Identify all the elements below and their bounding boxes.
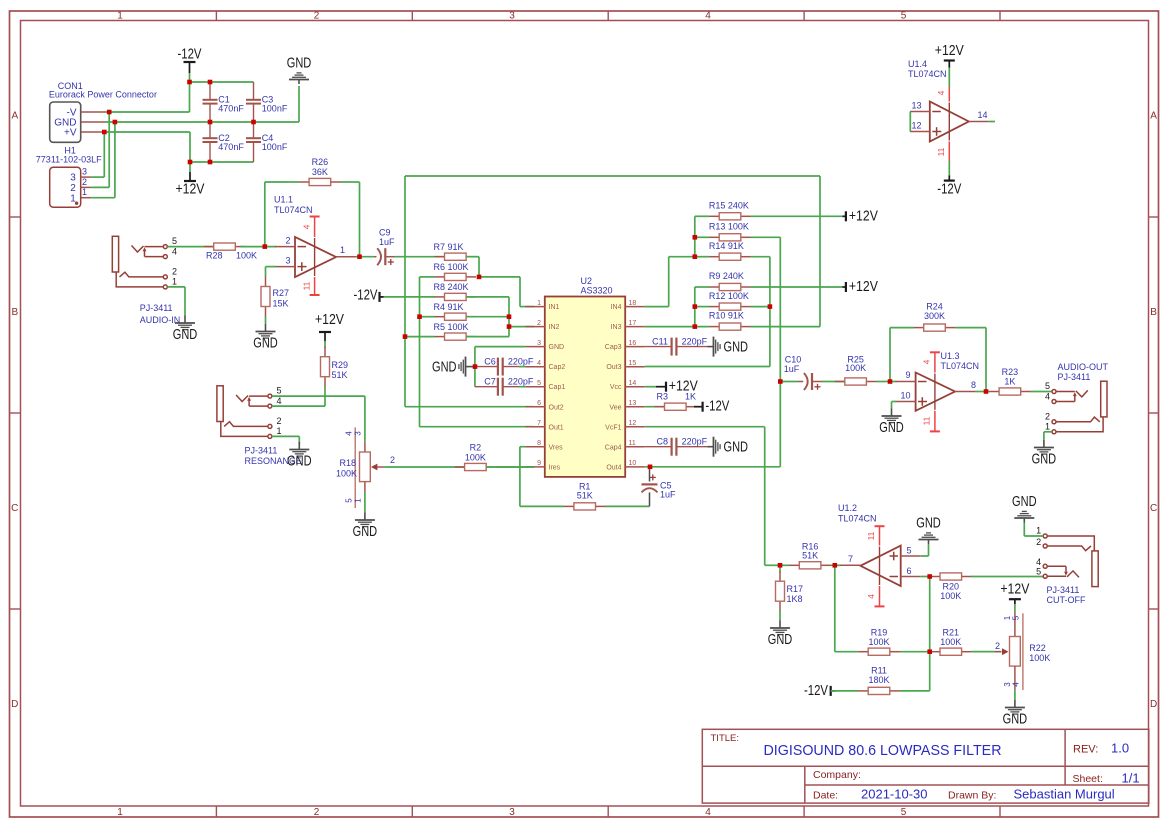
svg-text:4: 4 (866, 594, 876, 599)
junction at (694.8,326.6) (693, 324, 698, 329)
wire Out3 pin15 (645, 366, 770, 368)
wire R2 to Ires pin9 (486, 466, 534, 468)
op-amp U1.1 TL074CN (274, 195, 356, 278)
svg-text:A: A (11, 111, 18, 122)
junction at (929.7,576.5) (927, 574, 932, 579)
svg-text:-12V: -12V (354, 287, 378, 303)
capacitor C3 (246, 82, 288, 122)
svg-text:2: 2 (82, 177, 87, 187)
svg-text:100K: 100K (940, 637, 961, 647)
svg-text:5: 5 (901, 11, 907, 22)
wire R18 wiper to R2 (384, 466, 465, 468)
junction at (210,122) (208, 120, 213, 125)
svg-text:A: A (1150, 111, 1157, 122)
ground GND (top, bypass caps) (287, 56, 312, 85)
IC U2 AS3320 (525, 276, 644, 477)
wire R21 to R22 wiper (971, 651, 995, 653)
svg-text:4: 4 (705, 11, 711, 22)
junction at (780.3,381.5) (778, 379, 783, 384)
jack AUDIO-IN PJ-3411 (112, 236, 180, 325)
wire audio-in tip to R28 (168, 246, 214, 248)
svg-text:R19: R19 (871, 628, 888, 638)
svg-text:300K: 300K (924, 311, 945, 321)
wire audio-out sleeve to gnd (1044, 432, 1052, 440)
svg-text:100K: 100K (236, 251, 257, 261)
svg-text:3: 3 (509, 11, 515, 22)
junction at (834.8,565.3) (833, 563, 838, 568)
wire C7 to IC pin5 (519, 386, 525, 388)
svg-text:3: 3 (353, 431, 362, 436)
resistor R8 (381, 282, 476, 301)
wire feedback vertical x405 (Out2 net) (405, 176, 820, 407)
op-amp U1.4 TL074CN (unused) (908, 59, 989, 142)
svg-text:AUDIO-IN: AUDIO-IN (140, 315, 181, 325)
svg-text:15: 15 (629, 360, 637, 367)
svg-text:2: 2 (537, 320, 541, 327)
resistor R29 (321, 347, 349, 388)
potentiometer R18 100K (336, 427, 395, 508)
svg-text:REV:: REV: (1073, 744, 1098, 756)
U1.4 power pin 4 to +12V (935, 43, 964, 102)
resistor R4 (421, 302, 476, 320)
svg-text:C: C (1150, 503, 1157, 514)
svg-text:R6 100K: R6 100K (434, 262, 469, 272)
svg-text:1: 1 (353, 498, 362, 503)
svg-text:36K: 36K (312, 167, 328, 177)
svg-text:Cap2: Cap2 (549, 364, 566, 371)
svg-text:-12V: -12V (804, 683, 828, 699)
wire R11 to R21 node (900, 652, 930, 691)
svg-text:100K: 100K (336, 469, 357, 479)
svg-text:D: D (11, 699, 18, 710)
svg-text:13: 13 (629, 400, 637, 407)
svg-text:TL074CN: TL074CN (908, 69, 947, 79)
junction at (694.8,237.3) (693, 235, 698, 240)
capacitor C4 (246, 122, 288, 162)
svg-text:U1.2: U1.2 (838, 503, 857, 513)
svg-text:7: 7 (537, 420, 541, 427)
power -12V (R8 input) (354, 287, 384, 303)
junction at (359.5,256.7) (357, 254, 362, 259)
svg-text:Sebastian Murgul: Sebastian Murgul (1014, 787, 1115, 802)
wire H1 pin3 to +V (91, 132, 104, 177)
svg-text:14: 14 (978, 110, 988, 120)
potentiometer R22 100K (995, 612, 1050, 690)
resistor R27 (261, 277, 289, 318)
svg-text:1/1: 1/1 (1122, 771, 1140, 786)
svg-text:IN1: IN1 (549, 304, 560, 311)
resistor R25 (835, 355, 890, 386)
wire op-amp pin3 to R27 (266, 267, 277, 277)
svg-text:R20: R20 (943, 582, 960, 592)
wire R22 bottom to gnd (1014, 690, 1016, 700)
wire R25 to pin9 (890, 381, 897, 383)
svg-text:R18: R18 (339, 458, 356, 468)
svg-text:C8: C8 (656, 437, 668, 447)
wire R8 to R4 right node (466, 297, 509, 327)
svg-text:C9: C9 (379, 228, 391, 238)
jack CUT-OFF PJ-3411 (1036, 526, 1098, 606)
svg-text:2: 2 (1045, 412, 1050, 422)
wire pin7 to R19 (835, 565, 858, 651)
junction at (769.9,306.6) (768, 304, 773, 309)
svg-text:11: 11 (629, 440, 636, 447)
resistor R1 (564, 482, 606, 511)
ground GND (resonance jack) (287, 442, 312, 470)
svg-text:3: 3 (537, 340, 541, 347)
svg-text:U1.3: U1.3 (941, 351, 960, 361)
ground GND (R18) (353, 513, 378, 541)
svg-text:9: 9 (905, 370, 910, 380)
svg-text:CUT-OFF: CUT-OFF (1047, 595, 1086, 605)
wire R17 to gnd (779, 610, 781, 620)
svg-text:1: 1 (277, 426, 282, 436)
svg-text:1: 1 (1036, 526, 1041, 536)
svg-text:Out3: Out3 (606, 364, 621, 371)
svg-text:R26: R26 (312, 157, 329, 167)
wire resonance sleeve to gnd (272, 436, 299, 443)
svg-text:5: 5 (537, 380, 541, 387)
wire R5 right up to IN2 (466, 327, 534, 337)
svg-text:Vcc: Vcc (610, 384, 622, 391)
wire R14 right to R12 to Out3 (vertical A) (769, 257, 771, 367)
svg-text:100nF: 100nF (262, 142, 288, 152)
svg-text:R4 91K: R4 91K (434, 302, 464, 312)
U1.1 power pin 11 (302, 277, 320, 295)
capacitor C7 (475, 377, 534, 396)
svg-text:5: 5 (172, 236, 177, 246)
svg-text:C: C (11, 503, 18, 514)
wire R27 to gnd (265, 317, 267, 324)
svg-text:5: 5 (1011, 615, 1020, 620)
svg-text:B: B (11, 307, 18, 318)
svg-text:17: 17 (629, 320, 637, 327)
junction at (509,326.6) (507, 324, 512, 329)
svg-text:Out1: Out1 (549, 424, 564, 431)
svg-text:77311-102-03LF: 77311-102-03LF (36, 154, 102, 164)
capacitor C5 1uF polarized (642, 468, 677, 506)
svg-text:1.0: 1.0 (1111, 741, 1129, 756)
svg-text:R17: R17 (787, 584, 804, 594)
svg-text:IN2: IN2 (549, 324, 560, 331)
resistor R23 (989, 367, 1052, 395)
svg-text:-12V: -12V (178, 47, 202, 63)
wire R29 to jack pin4 (324, 388, 326, 407)
junction at (104.3,132) (102, 130, 107, 135)
junction at (694.8,256.7) (693, 254, 698, 259)
wire H1 pin2 to -V (91, 112, 109, 187)
svg-text:R21: R21 (943, 628, 960, 638)
svg-text:Out2: Out2 (549, 404, 564, 411)
ground GND (R27) (253, 324, 278, 352)
svg-text:3: 3 (70, 173, 76, 184)
svg-text:9: 9 (537, 460, 541, 467)
svg-text:2: 2 (314, 807, 320, 818)
svg-text:1: 1 (82, 187, 87, 197)
svg-text:TL074CN: TL074CN (838, 514, 877, 524)
wire audio-in sleeve to gnd (168, 287, 186, 316)
wire U1.3 output (975, 391, 989, 393)
resistor R15 (695, 200, 843, 220)
svg-text:5: 5 (277, 386, 282, 396)
svg-text:AUDIO-OUT: AUDIO-OUT (1058, 362, 1109, 372)
wire C6 to IC pin4 (519, 366, 525, 368)
connector H1 (36, 145, 102, 207)
wire GND rail (105, 86, 299, 122)
svg-text:C6: C6 (484, 357, 496, 367)
resistor R10 (709, 311, 820, 331)
wire feedback vertical x419 (Out1 net) (420, 277, 535, 427)
svg-text:R23: R23 (1002, 367, 1019, 377)
jack RESONANCE PJ-3411 (217, 386, 302, 467)
svg-text:IN4: IN4 (611, 304, 622, 311)
svg-text:VcF1: VcF1 (605, 424, 621, 431)
svg-text:100K: 100K (940, 591, 961, 601)
svg-text:1uF: 1uF (784, 364, 800, 374)
svg-text:4: 4 (936, 90, 946, 95)
svg-text:C10: C10 (785, 355, 802, 365)
svg-text:Sheet:: Sheet: (1073, 773, 1103, 785)
svg-text:Vres: Vres (549, 444, 564, 451)
wire R20 to cutoff jack (971, 576, 1043, 578)
junction at (650,466.8) (648, 465, 653, 470)
svg-text:2021-10-30: 2021-10-30 (861, 787, 928, 802)
capacitor C2 (203, 122, 245, 162)
svg-text:U1.1: U1.1 (274, 195, 293, 205)
wire VcF1 pin12 to U1.2 (645, 427, 780, 566)
resistor R24 feedback (890, 302, 986, 332)
wire R28 to op-amp pin2 (240, 246, 276, 248)
svg-text:220pF: 220pF (682, 437, 708, 447)
svg-text:C11: C11 (652, 337, 668, 347)
resistor R21 (930, 628, 1002, 656)
svg-text:12: 12 (629, 420, 637, 427)
ground GND (C6 C7) (432, 357, 475, 377)
svg-text:11: 11 (302, 281, 312, 290)
svg-text:-12V: -12V (937, 182, 961, 198)
svg-text:Out4: Out4 (606, 464, 621, 471)
junction at (109.2,112) (107, 110, 112, 115)
junction at (929.7,651.7) (927, 649, 932, 654)
svg-text:R28: R28 (206, 251, 223, 261)
svg-text:TL074CN: TL074CN (941, 361, 980, 371)
svg-text:DIGISOUND 80.6 LOWPASS FILTER: DIGISOUND 80.6 LOWPASS FILTER (764, 742, 1002, 759)
wire R4 right (466, 316, 509, 318)
wire op-amp U1.1 output (356, 256, 374, 258)
svg-text:4: 4 (922, 359, 932, 364)
svg-text:PJ-3411: PJ-3411 (1047, 585, 1080, 595)
svg-text:R15 240K: R15 240K (709, 200, 749, 210)
svg-text:+12V: +12V (176, 182, 205, 198)
jack AUDIO-OUT PJ-3411 (1045, 362, 1109, 434)
wire IN3 pin17 line (645, 326, 709, 328)
svg-text:U2: U2 (581, 276, 593, 286)
svg-text:7: 7 (848, 554, 853, 564)
wire +V rail (105, 132, 254, 162)
svg-text:R9 240K: R9 240K (709, 271, 744, 281)
power +12V (Vcc pin14) (645, 379, 698, 395)
svg-text:220pF: 220pF (508, 377, 534, 387)
svg-text:Vee: Vee (609, 404, 621, 411)
power +12V (top left) (176, 162, 205, 198)
svg-text:180K: 180K (868, 675, 889, 685)
title block (702, 729, 1149, 803)
svg-text:1: 1 (117, 807, 123, 818)
svg-text:4: 4 (1011, 682, 1020, 687)
svg-text:4: 4 (1045, 391, 1050, 401)
svg-text:4: 4 (1036, 557, 1041, 567)
resistor R16 (780, 542, 835, 569)
svg-text:5: 5 (1045, 381, 1050, 391)
svg-text:2: 2 (172, 267, 177, 277)
svg-text:18: 18 (629, 300, 637, 307)
svg-text:+12V: +12V (315, 312, 344, 328)
svg-text:1K: 1K (1004, 377, 1015, 387)
ground GND (U1.3 pin10) (879, 409, 904, 437)
svg-text:1uF: 1uF (660, 490, 676, 500)
wire H1 pin1 to GND (91, 122, 115, 198)
wire IN4 pin18 (645, 257, 695, 307)
resistor R13 (695, 221, 781, 241)
junction at (189.5,82) (187, 80, 192, 85)
ground GND (audio-in) (173, 316, 198, 344)
svg-text:100nF: 100nF (262, 103, 288, 113)
svg-text:+12V: +12V (935, 43, 964, 59)
svg-text:R27: R27 (273, 288, 290, 298)
svg-text:1K: 1K (685, 391, 696, 401)
svg-text:-12V: -12V (705, 399, 729, 415)
junction at (210,162) (208, 160, 213, 165)
junction at (509,316.7) (507, 314, 512, 319)
ground GND (audio-out) (1032, 440, 1057, 468)
wire C10 tap (780, 381, 798, 383)
svg-text:IN3: IN3 (611, 324, 622, 331)
svg-text:+12V: +12V (849, 208, 878, 224)
svg-text:16: 16 (629, 340, 637, 347)
wire C9 to R7 (395, 256, 445, 258)
svg-text:11: 11 (866, 531, 876, 540)
junction at (986,391.5) (984, 389, 989, 394)
wire R18 bottom to gnd (364, 492, 366, 513)
svg-text:13: 13 (911, 101, 921, 111)
wire R24 loop right (985, 328, 987, 392)
wire pin10 to gnd (892, 402, 897, 409)
resistor R14 (695, 241, 770, 260)
svg-text:C7: C7 (484, 377, 496, 387)
svg-text:U1.4: U1.4 (908, 59, 927, 69)
svg-text:+V: +V (64, 128, 77, 139)
svg-text:B: B (1150, 307, 1157, 318)
svg-text:GND: GND (549, 344, 565, 351)
svg-text:220pF: 220pF (682, 337, 708, 347)
svg-text:2: 2 (1036, 537, 1041, 547)
svg-text:11: 11 (922, 416, 932, 425)
power -12V (R3) (694, 399, 730, 415)
wire resonance tip to R18 (272, 396, 365, 442)
capacitor C6 (477, 357, 534, 376)
svg-text:R5 100K: R5 100K (434, 322, 469, 332)
svg-text:1: 1 (117, 11, 123, 22)
svg-text:5: 5 (901, 807, 907, 818)
svg-text:2: 2 (277, 416, 282, 426)
svg-text:2: 2 (285, 236, 290, 246)
junction at (405,336.6) (403, 334, 408, 339)
svg-text:Cap1: Cap1 (549, 384, 566, 391)
wire IC GND pin3 loop (475, 347, 526, 387)
svg-text:100K: 100K (1029, 653, 1050, 663)
svg-text:PJ-3411: PJ-3411 (245, 446, 278, 456)
svg-text:R8 240K: R8 240K (434, 282, 469, 292)
ground GND (R22) (1003, 700, 1028, 728)
svg-text:8: 8 (537, 440, 541, 447)
resistor R3 (655, 391, 697, 410)
svg-text:6: 6 (907, 566, 912, 576)
svg-text:8: 8 (971, 380, 976, 390)
svg-text:100K: 100K (465, 453, 486, 463)
wire U1.4 output stub (989, 121, 995, 123)
svg-text:PJ-3411: PJ-3411 (140, 303, 173, 313)
svg-text:4: 4 (172, 246, 177, 256)
capacitor C11 (645, 337, 708, 356)
op-amp U1.3 TL074CN (896, 351, 979, 411)
svg-text:R13 100K: R13 100K (709, 221, 749, 231)
ground GND (cutoff jack) (1012, 494, 1037, 523)
resistor R17 (776, 567, 804, 611)
wire IN3 to top line x820 (819, 176, 821, 327)
svg-text:10: 10 (629, 460, 637, 467)
svg-text:Date:: Date: (813, 790, 838, 802)
wire R9-R12-R10 left vertical (694, 287, 696, 327)
wire cutoff pin1 to gnd (1024, 523, 1043, 537)
svg-text:R11: R11 (871, 666, 887, 676)
capacitor C10 1uF polarized (784, 355, 822, 391)
power +12V (R22) (1000, 582, 1029, 613)
svg-text:2: 2 (390, 455, 395, 465)
wire R26 feedback loop (265, 182, 360, 257)
svg-text:1: 1 (340, 245, 345, 255)
junction at (190,162) (188, 160, 193, 165)
svg-text:15K: 15K (273, 299, 289, 309)
resistor R20 (930, 573, 972, 601)
svg-text:R2: R2 (470, 443, 482, 453)
svg-text:100K: 100K (868, 637, 889, 647)
wire C10 to R25 (822, 381, 845, 383)
svg-text:51K: 51K (802, 551, 818, 561)
connector CON1 (49, 81, 157, 142)
power -12V (R11) (804, 683, 836, 699)
svg-text:12: 12 (911, 121, 921, 131)
svg-text:4: 4 (705, 807, 711, 818)
junction at (475,366.6) (473, 364, 478, 369)
svg-text:Cap3: Cap3 (605, 344, 622, 351)
svg-text:4: 4 (345, 431, 354, 436)
svg-text:4: 4 (277, 396, 282, 406)
resistor R11 (831, 666, 900, 695)
wire R24 loop left (889, 328, 891, 382)
svg-text:4: 4 (537, 360, 541, 367)
svg-text:R12 100K: R12 100K (709, 291, 749, 301)
svg-text:100K: 100K (845, 363, 866, 373)
svg-text:TITLE:: TITLE: (711, 733, 740, 744)
svg-text:R3: R3 (656, 391, 668, 401)
svg-text:3: 3 (509, 807, 515, 818)
svg-text:+12V: +12V (849, 279, 878, 295)
junction at (890,381.5) (888, 379, 893, 384)
wire Out4 pin10 (645, 466, 781, 468)
junction at (780,565.3) (778, 563, 783, 568)
wire R7 to R6 node (466, 257, 479, 277)
svg-text:R22: R22 (1029, 643, 1046, 653)
